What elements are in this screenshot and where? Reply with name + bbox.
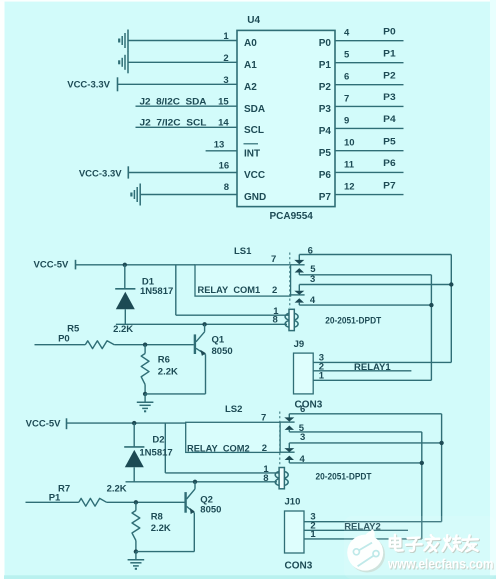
svg-text:16: 16 xyxy=(219,161,230,172)
svg-text:4: 4 xyxy=(344,28,350,39)
svg-text:2: 2 xyxy=(223,53,228,64)
svg-text:6: 6 xyxy=(308,246,313,257)
svg-text:2.2K: 2.2K xyxy=(107,483,127,494)
svg-text:P3: P3 xyxy=(319,104,332,115)
svg-text:P1: P1 xyxy=(319,60,332,71)
svg-text:6: 6 xyxy=(344,72,349,83)
svg-text:1: 1 xyxy=(319,371,325,382)
svg-text:2: 2 xyxy=(272,285,277,296)
svg-text:A2: A2 xyxy=(244,82,257,93)
svg-text:J10: J10 xyxy=(285,497,301,508)
svg-text:www.elecfans.com: www.elecfans.com xyxy=(387,556,493,572)
svg-text:7: 7 xyxy=(261,412,266,423)
svg-text:VCC-3.3V: VCC-3.3V xyxy=(67,79,110,90)
svg-text:U4: U4 xyxy=(247,15,260,26)
svg-text:A0: A0 xyxy=(244,38,257,49)
svg-text:14: 14 xyxy=(218,118,229,129)
svg-text:P1: P1 xyxy=(383,48,396,59)
svg-text:P5: P5 xyxy=(383,136,396,147)
svg-text:2.2K: 2.2K xyxy=(113,324,133,335)
svg-text:P4: P4 xyxy=(383,114,396,125)
svg-text:P4: P4 xyxy=(319,126,332,137)
svg-text:8050: 8050 xyxy=(200,505,221,516)
svg-text:7: 7 xyxy=(344,93,349,104)
svg-text:P5: P5 xyxy=(319,148,332,159)
svg-text:P6: P6 xyxy=(319,170,332,181)
svg-text:P2: P2 xyxy=(319,82,332,93)
svg-text:4: 4 xyxy=(300,454,306,465)
svg-text:GND: GND xyxy=(244,192,266,203)
svg-text:20-2051-DPDT: 20-2051-DPDT xyxy=(325,315,381,325)
svg-text:4: 4 xyxy=(310,295,316,306)
svg-text:3: 3 xyxy=(300,432,305,443)
svg-text:8050: 8050 xyxy=(212,346,233,357)
svg-text:1N5817: 1N5817 xyxy=(139,447,172,458)
svg-text:8: 8 xyxy=(224,182,229,193)
svg-text:INT: INT xyxy=(244,148,260,159)
svg-text:SDA: SDA xyxy=(244,104,265,115)
svg-text:8: 8 xyxy=(273,315,278,326)
svg-text:P3: P3 xyxy=(383,92,396,103)
svg-text:1N5817: 1N5817 xyxy=(140,286,173,297)
svg-text:P2: P2 xyxy=(383,70,396,81)
svg-text:2.2K: 2.2K xyxy=(151,523,171,534)
svg-text:P6: P6 xyxy=(383,158,396,169)
svg-text:10: 10 xyxy=(344,138,355,149)
svg-text:2.2K: 2.2K xyxy=(158,366,178,377)
svg-text:15: 15 xyxy=(218,97,229,108)
svg-text:SCL: SCL xyxy=(244,125,264,136)
svg-text:P7: P7 xyxy=(319,192,332,203)
svg-text:13: 13 xyxy=(214,139,225,150)
svg-text:RELAY1: RELAY1 xyxy=(354,362,391,373)
svg-text:11: 11 xyxy=(344,159,355,170)
svg-text:20-2051-DPDT: 20-2051-DPDT xyxy=(316,472,372,482)
svg-text:1: 1 xyxy=(223,31,229,42)
svg-text:P0: P0 xyxy=(58,334,70,345)
svg-text:VCC: VCC xyxy=(244,170,265,181)
svg-text:P0: P0 xyxy=(319,38,332,49)
svg-text:R6: R6 xyxy=(158,354,170,365)
svg-text:12: 12 xyxy=(344,182,355,193)
svg-text:VCC-5V: VCC-5V xyxy=(34,260,70,271)
svg-text:J9: J9 xyxy=(294,339,305,350)
svg-text:LS1: LS1 xyxy=(234,246,252,257)
svg-text:RELAY COM2: RELAY COM2 xyxy=(187,444,250,454)
svg-text:J2 7/I2C SCL: J2 7/I2C SCL xyxy=(140,118,207,128)
svg-text:Q1: Q1 xyxy=(212,335,225,346)
svg-text:P0: P0 xyxy=(383,26,396,37)
svg-text:R8: R8 xyxy=(151,511,163,522)
svg-text:7: 7 xyxy=(271,254,276,265)
svg-text:LS2: LS2 xyxy=(225,404,242,415)
svg-text:VCC-5V: VCC-5V xyxy=(26,419,62,430)
svg-text:CON3: CON3 xyxy=(295,400,323,411)
svg-text:RELAY COM1: RELAY COM1 xyxy=(198,285,261,295)
svg-text:PCA9554: PCA9554 xyxy=(270,211,314,222)
svg-text:CON3: CON3 xyxy=(285,560,313,571)
svg-text:3: 3 xyxy=(310,274,315,285)
svg-text:P7: P7 xyxy=(383,180,396,191)
svg-text:8: 8 xyxy=(263,473,268,484)
svg-text:J2 8/I2C SDA: J2 8/I2C SDA xyxy=(140,97,207,107)
svg-text:2: 2 xyxy=(262,443,267,454)
svg-text:D2: D2 xyxy=(152,434,164,445)
svg-text:6: 6 xyxy=(300,404,305,415)
svg-text:5: 5 xyxy=(344,50,350,61)
svg-text:9: 9 xyxy=(344,115,349,126)
svg-text:A1: A1 xyxy=(244,60,257,71)
svg-text:1: 1 xyxy=(310,529,316,540)
svg-text:VCC-3.3V: VCC-3.3V xyxy=(79,169,122,180)
svg-text:3: 3 xyxy=(223,75,228,86)
